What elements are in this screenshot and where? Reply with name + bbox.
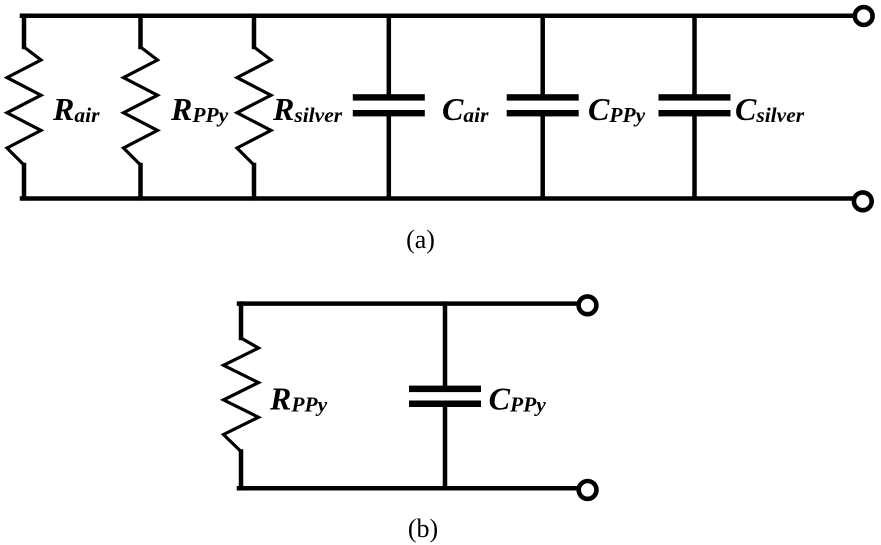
wire R_silver top lead [252, 16, 257, 47]
wire R_PPy top lead (b) [239, 304, 244, 338]
wire R_PPy top lead [138, 16, 143, 47]
wire C_air top lead [387, 16, 392, 95]
wire R_PPy bottom lead [138, 165, 143, 198]
svg-text:CPPy: CPPy [489, 380, 547, 416]
resistor R_silver [237, 47, 271, 165]
capacitor C_silver [659, 94, 731, 100]
svg-text:Csilver: Csilver [735, 91, 805, 127]
wire C_silver top lead [692, 16, 697, 95]
wire R_PPy bottom lead (b) [239, 452, 244, 489]
svg-text:(b): (b) [408, 514, 438, 543]
wire top rail (a) [22, 13, 854, 18]
wire C_PPy top lead (b) [443, 304, 448, 386]
svg-text:Cair: Cair [442, 91, 489, 127]
wire C_PPy bottom lead (b) [443, 407, 448, 488]
terminal top (a) [855, 7, 873, 25]
wire R_air top lead [22, 16, 27, 47]
resistor R_PPy (b) [224, 338, 259, 452]
terminal bottom (b) [579, 481, 597, 499]
resistor R_air [7, 47, 41, 165]
terminal bottom (a) [854, 192, 872, 210]
wire C_PPy top lead [540, 16, 545, 95]
svg-text:(a): (a) [406, 225, 435, 254]
svg-text:RPPy: RPPy [170, 91, 229, 127]
wire C_PPy bottom lead [540, 116, 545, 198]
capacitor C_PPy [507, 94, 579, 100]
capacitor C_air [353, 94, 425, 100]
svg-text:CPPy: CPPy [588, 91, 646, 127]
svg-text:Rair: Rair [52, 91, 100, 127]
wire R_air bottom lead [22, 165, 27, 198]
svg-text:Rsilver: Rsilver [272, 91, 343, 127]
wire bottom rail (a) [22, 196, 854, 201]
wire top rail (b) [239, 301, 578, 306]
capacitor C_PPy (b) [409, 386, 481, 393]
resistor R_PPy [124, 47, 158, 165]
wire bottom rail (b) [239, 486, 578, 491]
terminal top (b) [579, 296, 597, 314]
svg-text:RPPy: RPPy [269, 380, 328, 416]
wire C_air bottom lead [387, 116, 392, 198]
wire R_silver bottom lead [252, 165, 257, 198]
wire C_silver bottom lead [692, 116, 697, 198]
